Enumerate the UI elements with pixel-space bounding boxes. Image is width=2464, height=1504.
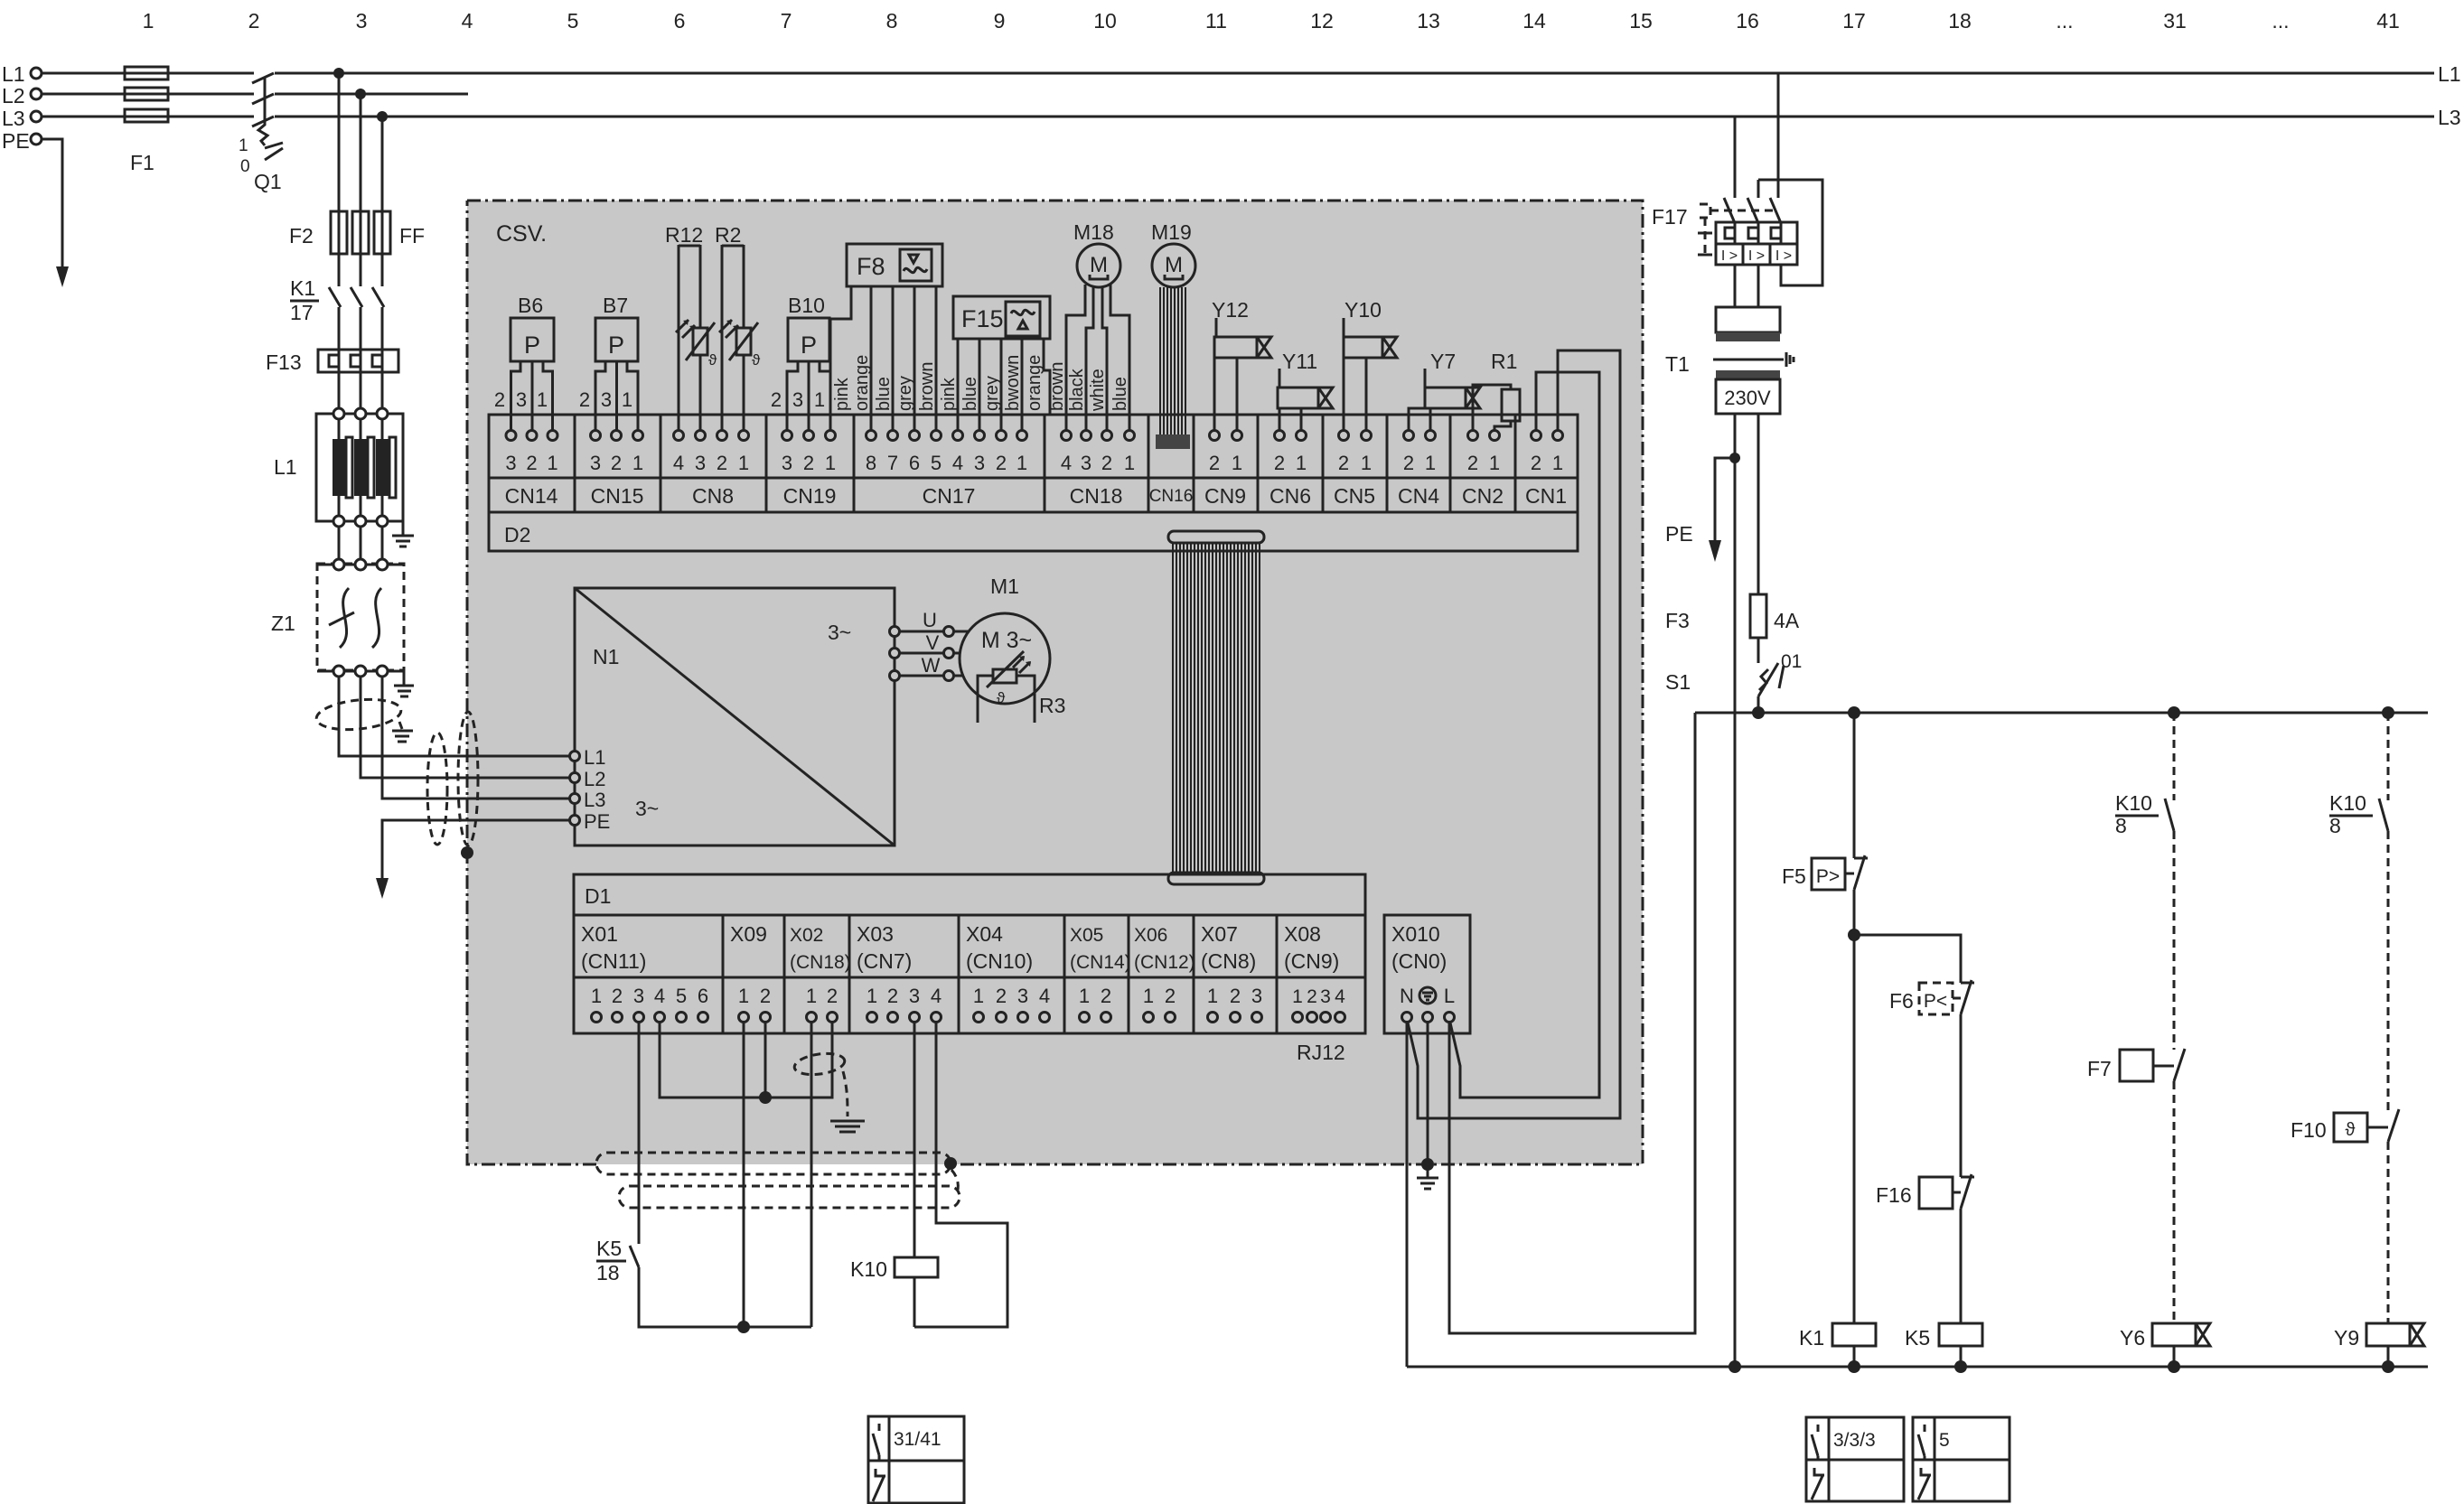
svg-text:3: 3: [1320, 986, 1331, 1007]
svg-text:2: 2: [887, 985, 898, 1007]
svg-text:(CN14): (CN14): [1070, 952, 1131, 973]
svg-text:1: 1: [1361, 452, 1372, 474]
svg-text:4A: 4A: [1774, 609, 1800, 632]
wire X010-L to control rail: [1449, 713, 1695, 1333]
svg-text:3: 3: [1251, 985, 1262, 1007]
svg-text:F2: F2: [289, 224, 314, 248]
svg-text:4: 4: [1039, 985, 1050, 1007]
wire X01-4 to X02-2 jumper: [660, 1023, 832, 1098]
svg-text:1: 1: [1124, 452, 1135, 474]
wire branch K1: [1853, 713, 1856, 858]
connector X03 pins: [867, 985, 942, 1023]
svg-text:2: 2: [1274, 452, 1285, 474]
connector CN8 pins: [673, 431, 749, 475]
svg-text:1: 1: [547, 452, 557, 474]
svg-text:M: M: [1165, 253, 1183, 277]
svg-text:D2: D2: [504, 523, 530, 546]
svg-text:2: 2: [494, 388, 505, 411]
svg-text:13: 13: [1417, 9, 1440, 33]
svg-text:K10: K10: [2115, 791, 2152, 815]
wire branch Y6 (dashed): [2173, 713, 2176, 800]
svg-text:FF: FF: [399, 224, 425, 248]
svg-text:X02: X02: [790, 925, 823, 946]
svg-text:R2: R2: [715, 223, 741, 247]
svg-text:X01: X01: [581, 922, 618, 946]
svg-text:2: 2: [1101, 452, 1112, 474]
svg-text:F1: F1: [130, 151, 155, 174]
wires F8 to CN17 pins 8-5: [871, 286, 936, 430]
svg-text:4: 4: [1335, 986, 1345, 1007]
svg-text:3: 3: [516, 388, 527, 411]
connector CN14 pins: [505, 431, 557, 475]
wire X01-3 to K5 contact: [638, 1023, 641, 1244]
svg-text:8: 8: [2115, 814, 2127, 837]
cable shield stadium 1: [596, 1153, 951, 1174]
wire L1 bus: [42, 72, 2434, 75]
svg-text:Y9: Y9: [2334, 1326, 2359, 1350]
svg-text:X06: X06: [1134, 925, 1167, 946]
wire X03-3 to K10 coil: [913, 1023, 916, 1257]
svg-text:L3: L3: [2, 107, 25, 130]
svg-text:3: 3: [590, 452, 601, 474]
shield on X02 pair: [793, 1051, 847, 1078]
svg-text:grey: grey: [895, 376, 915, 411]
ribbon cable CN16 to D1: [1173, 543, 1260, 873]
svg-text:9: 9: [994, 9, 1006, 33]
svg-text:(CN11): (CN11): [581, 949, 646, 973]
svg-text:V: V: [926, 631, 940, 654]
svg-text:1: 1: [591, 985, 602, 1007]
svg-text:CSV.: CSV.: [496, 221, 547, 247]
svg-text:F15: F15: [961, 305, 1004, 332]
svg-text:3~: 3~: [828, 621, 851, 644]
svg-text:1: 1: [973, 985, 984, 1007]
svg-text:(CN7): (CN7): [857, 949, 912, 973]
F17 magnetic row I>: [1716, 244, 1797, 265]
svg-text:ϑ: ϑ: [2346, 1120, 2356, 1140]
connector X08 pins 1234: [1292, 986, 1345, 1023]
svg-text:2: 2: [612, 985, 623, 1007]
svg-text:2: 2: [1165, 985, 1176, 1007]
junction L1/F17 feeders: [333, 68, 344, 79]
svg-text:CN8: CN8: [692, 484, 734, 508]
wire L1 to F17: [1777, 73, 1780, 198]
svg-text:black: black: [1067, 368, 1087, 411]
svg-text:17: 17: [290, 301, 314, 324]
wire choke to Z1: [339, 527, 382, 559]
svg-text:K5: K5: [1905, 1326, 1930, 1350]
connector X02 pins: [806, 985, 838, 1023]
svg-text:2: 2: [1230, 985, 1241, 1007]
svg-text:CN15: CN15: [591, 484, 644, 508]
connector X010: [1384, 915, 1470, 1033]
svg-text:2: 2: [996, 985, 1007, 1007]
svg-text:4: 4: [462, 9, 473, 33]
svg-text:1: 1: [632, 452, 643, 474]
svg-text:2: 2: [771, 388, 782, 411]
svg-text:blue: blue: [874, 377, 894, 411]
svg-text:CN9: CN9: [1204, 484, 1246, 508]
svg-text:CN4: CN4: [1398, 484, 1439, 508]
svg-text:2: 2: [1467, 452, 1478, 474]
svg-text:B7: B7: [603, 294, 628, 317]
svg-text:ϑ: ϑ: [708, 351, 717, 369]
svg-text:X03: X03: [857, 922, 894, 946]
wire F13 to choke L1: [339, 372, 382, 409]
svg-text:(CN0): (CN0): [1391, 949, 1447, 973]
svg-text:L3: L3: [2438, 106, 2461, 129]
svg-text:ϑ: ϑ: [752, 351, 761, 369]
enclosure CSV border (dash-dot): [467, 201, 1643, 1164]
svg-text:4: 4: [931, 985, 942, 1007]
svg-text:CN14: CN14: [505, 484, 558, 508]
svg-text:PE: PE: [2, 129, 30, 153]
svg-text:S1: S1: [1665, 670, 1691, 694]
svg-text:2: 2: [996, 452, 1007, 474]
svg-text:P: P: [524, 332, 540, 359]
wire F17 jumper loop: [1758, 180, 1822, 285]
svg-text:4: 4: [673, 452, 684, 474]
svg-text:U: U: [923, 609, 937, 631]
svg-text:(CN9): (CN9): [1284, 949, 1339, 973]
svg-text:3: 3: [633, 985, 644, 1007]
svg-text:F6: F6: [1889, 989, 1914, 1013]
fuse F3 4A: [1757, 414, 1760, 594]
wire X09-2 drop: [764, 1023, 767, 1098]
svg-text:L1: L1: [2, 62, 25, 86]
svg-text:1: 1: [1079, 985, 1090, 1007]
contact reference table (K10): [868, 1416, 964, 1503]
svg-text:2: 2: [1307, 986, 1317, 1007]
svg-text:(CN18): (CN18): [790, 952, 851, 973]
svg-text:5: 5: [1939, 1430, 1950, 1451]
svg-text:4: 4: [952, 452, 963, 474]
svg-text:1: 1: [814, 388, 825, 411]
svg-text:1: 1: [738, 452, 749, 474]
svg-text:1: 1: [1232, 452, 1242, 474]
svg-text:2: 2: [1209, 452, 1220, 474]
switch S1: [1757, 638, 1760, 663]
svg-text:15: 15: [1629, 9, 1653, 33]
svg-text:CN6: CN6: [1269, 484, 1311, 508]
connector CN4 pins: [1403, 431, 1436, 475]
svg-text:F5: F5: [1782, 864, 1806, 888]
wire X09-1 drop: [743, 1023, 745, 1327]
svg-text:X010: X010: [1391, 922, 1440, 946]
svg-text:X07: X07: [1201, 922, 1238, 946]
svg-text:PE: PE: [584, 810, 610, 833]
svg-text:2: 2: [1338, 452, 1349, 474]
connector X01 pins: [591, 985, 708, 1023]
svg-text:31/41: 31/41: [894, 1429, 942, 1450]
wire T1 secondary left / N drop: [1734, 414, 1737, 1367]
wires N1 U V W to M1: [900, 631, 969, 676]
svg-text:0: 0: [240, 157, 250, 176]
svg-text:brown: brown: [1047, 362, 1067, 411]
pressure switch F8: [847, 244, 942, 286]
svg-text:CN16: CN16: [1149, 487, 1194, 506]
svg-text:P<: P<: [1924, 991, 1947, 1012]
svg-text:1: 1: [1292, 986, 1303, 1007]
svg-text:M18: M18: [1073, 220, 1114, 244]
controller board D1: [574, 874, 1365, 1033]
svg-text:X08: X08: [1284, 922, 1321, 946]
wires M18 to CN18: [1066, 285, 1085, 430]
svg-text:P: P: [801, 332, 817, 359]
svg-text:31: 31: [2163, 9, 2187, 33]
frequency converter N1: [575, 588, 895, 845]
svg-text:1: 1: [1017, 452, 1027, 474]
svg-text:41: 41: [2376, 9, 2400, 33]
svg-text:F8: F8: [857, 253, 885, 280]
svg-text:2: 2: [827, 985, 838, 1007]
pressure switch F15: [953, 296, 1050, 339]
svg-text:blue: blue: [1110, 377, 1130, 411]
svg-text:CN2: CN2: [1462, 484, 1504, 508]
svg-text:M19: M19: [1151, 220, 1192, 244]
svg-text:8: 8: [866, 452, 876, 474]
svg-text:3: 3: [782, 452, 792, 474]
fuse F2 / FF (3x): [331, 211, 390, 254]
wire Z1 to N1 L2: [361, 677, 575, 778]
svg-text:N1: N1: [593, 645, 619, 668]
connector CN19 pins: [782, 431, 836, 475]
svg-text:B6: B6: [518, 294, 543, 317]
svg-text:3: 3: [909, 985, 920, 1007]
contactor contacts K1/17: [329, 287, 384, 307]
wire X010-earth to CSV bond: [1427, 1023, 1429, 1164]
svg-text:...: ...: [2056, 9, 2073, 33]
svg-text:X04: X04: [966, 922, 1003, 946]
svg-text:2: 2: [803, 452, 814, 474]
svg-text:F13: F13: [266, 350, 302, 374]
connector CN6 pins: [1274, 431, 1307, 475]
svg-text:M: M: [1090, 253, 1108, 277]
svg-text:1: 1: [1207, 985, 1218, 1007]
svg-text:P: P: [608, 332, 624, 359]
svg-text:CN1: CN1: [1525, 484, 1567, 508]
junction shield bond to CSV: [461, 846, 473, 859]
svg-text:X09: X09: [730, 922, 767, 946]
svg-text:1: 1: [1296, 452, 1307, 474]
enclosure CSV (gray area): [467, 201, 1643, 1164]
svg-text:Q1: Q1: [254, 170, 282, 193]
svg-text:2: 2: [579, 388, 590, 411]
F17 thermal row: [1716, 222, 1797, 244]
ground at choke: [392, 521, 414, 546]
svg-text:12: 12: [1310, 9, 1334, 33]
svg-text:L2: L2: [2, 84, 25, 107]
wire N1 PE with down arrow: [382, 820, 575, 878]
wire three-phase feeder drop: [339, 73, 382, 286]
thermistor R3 in M1: [978, 676, 1035, 723]
svg-text:K5: K5: [596, 1237, 622, 1260]
svg-text:blue: blue: [960, 377, 980, 411]
svg-text:Y7: Y7: [1430, 350, 1456, 373]
F17 linkage (dashed): [1710, 210, 1775, 212]
connector X09 pins: [738, 985, 771, 1023]
svg-text:Y6: Y6: [2120, 1326, 2145, 1350]
PE tap with arrow: [1715, 458, 1735, 540]
svg-text:2: 2: [760, 985, 771, 1007]
svg-text:2: 2: [1403, 452, 1414, 474]
svg-text:CN17: CN17: [923, 484, 976, 508]
svg-text:1: 1: [537, 388, 548, 411]
terminal board D2: [489, 415, 1578, 551]
choke L1: [316, 414, 403, 521]
svg-text:7: 7: [887, 452, 898, 474]
ribbon M19 to CN16: [1160, 287, 1185, 434]
svg-text:2: 2: [611, 452, 622, 474]
svg-text:11: 11: [1205, 9, 1227, 33]
svg-text:16: 16: [1736, 9, 1759, 33]
svg-text:230V: 230V: [1724, 387, 1771, 409]
svg-text:pink: pink: [832, 377, 852, 411]
svg-text:T1: T1: [1665, 352, 1690, 376]
svg-text:D1: D1: [585, 884, 611, 908]
svg-text:L1: L1: [2438, 62, 2461, 86]
svg-text:brown: brown: [917, 362, 937, 411]
svg-text:N: N: [1400, 985, 1414, 1007]
svg-text:8: 8: [2329, 814, 2341, 837]
svg-text:4: 4: [654, 985, 665, 1007]
svg-text:6: 6: [674, 9, 686, 33]
svg-text:3~: 3~: [635, 797, 659, 820]
connector X07 pins: [1207, 985, 1262, 1023]
svg-text:K10: K10: [2329, 791, 2366, 815]
svg-text:18: 18: [596, 1261, 620, 1284]
svg-text:R12: R12: [665, 223, 703, 247]
svg-text:orange: orange: [1025, 355, 1045, 411]
column ruler numbers 1-41: [143, 9, 2400, 33]
svg-text:6: 6: [698, 985, 708, 1007]
contact K5/18: [630, 1246, 639, 1267]
connector CN16 (ribbon socket): [1156, 434, 1190, 449]
wire branch K5: [1854, 935, 1961, 983]
wire K1 to F13: [339, 307, 382, 350]
svg-text:I >: I >: [1748, 248, 1765, 264]
connector CN2 pins: [1467, 431, 1500, 475]
F17 levers: [1724, 198, 1781, 223]
filter Z1: [317, 564, 404, 670]
connector X06 pins: [1143, 985, 1176, 1023]
svg-text:L3: L3: [584, 789, 605, 811]
wire L2 bus: [42, 93, 468, 96]
svg-text:17: 17: [1842, 9, 1866, 33]
svg-text:X05: X05: [1070, 925, 1103, 946]
svg-text:7: 7: [781, 9, 792, 33]
connector CN17 pins: [866, 431, 1027, 475]
svg-text:F10: F10: [2291, 1118, 2327, 1142]
wire branch Y9 (dashed): [2387, 713, 2390, 800]
svg-text:L1: L1: [584, 746, 605, 769]
svg-text:2: 2: [248, 9, 260, 33]
connector X04 pins: [973, 985, 1050, 1023]
connector CN15 pins: [590, 431, 643, 475]
wire X03-4 loop to K10: [914, 1023, 1007, 1327]
svg-text:2: 2: [717, 452, 727, 474]
svg-text:1: 1: [867, 985, 877, 1007]
svg-text:1: 1: [1552, 452, 1563, 474]
svg-text:grey: grey: [982, 376, 1002, 411]
svg-text:3: 3: [695, 452, 706, 474]
svg-text:M1: M1: [990, 575, 1019, 598]
wire CN1-2 to X010-L loop: [1449, 372, 1599, 1098]
svg-text:3: 3: [601, 388, 612, 411]
wire Z1 to N1 L3: [382, 677, 575, 799]
svg-text:B10: B10: [788, 294, 825, 317]
svg-text:CN19: CN19: [783, 484, 837, 508]
svg-text:...: ...: [2272, 9, 2289, 33]
wire Z1 to N1 L1: [339, 677, 575, 756]
svg-text:1: 1: [1425, 452, 1436, 474]
svg-text:1: 1: [738, 985, 749, 1007]
svg-text:5: 5: [931, 452, 942, 474]
svg-text:F7: F7: [2087, 1057, 2112, 1080]
svg-text:3: 3: [505, 452, 516, 474]
svg-text:white: white: [1088, 369, 1108, 412]
svg-text:(CN8): (CN8): [1201, 949, 1256, 973]
wire CN1-1 to X010-N loop: [1407, 350, 1620, 1118]
wire X010-N to N rail: [1406, 1023, 1409, 1367]
wire F8 pin1 pink to CN19-1: [830, 286, 851, 430]
thermal overload F13: [318, 350, 398, 372]
svg-text:18: 18: [1948, 9, 1972, 33]
transformer T1: [1735, 265, 1758, 307]
svg-text:F3: F3: [1665, 609, 1690, 632]
svg-text:R3: R3: [1039, 694, 1065, 717]
svg-text:Z1: Z1: [271, 612, 295, 635]
shield over feeder wires: [315, 696, 403, 733]
fuse F1 (3x): [125, 67, 168, 122]
svg-text:L1: L1: [274, 455, 297, 479]
connector CN9 pins: [1209, 431, 1242, 475]
svg-text:8: 8: [886, 9, 898, 33]
wire L3 bus: [42, 116, 2434, 118]
svg-text:R1: R1: [1491, 350, 1517, 373]
svg-text:10: 10: [1093, 9, 1117, 33]
svg-text:L: L: [1444, 985, 1455, 1007]
contact reference table (K5): [1913, 1417, 2010, 1501]
svg-text:P>: P>: [1816, 866, 1840, 887]
wire F15 orange: [1044, 339, 1050, 415]
svg-text:1: 1: [1143, 985, 1154, 1007]
switch Q1: [252, 73, 283, 160]
ground below X010: [1417, 1164, 1438, 1189]
svg-text:1: 1: [825, 452, 836, 474]
svg-text:1: 1: [143, 9, 155, 33]
svg-text:2: 2: [526, 452, 537, 474]
svg-text:5: 5: [567, 9, 579, 33]
svg-text:orange: orange: [852, 355, 872, 411]
svg-text:3: 3: [356, 9, 368, 33]
svg-text:Y10: Y10: [1344, 298, 1382, 322]
wire N return rail: [1407, 1366, 2428, 1369]
svg-text:3: 3: [792, 388, 803, 411]
connector X05 pins: [1079, 985, 1111, 1023]
svg-text:K1: K1: [1799, 1326, 1824, 1350]
svg-text:1: 1: [806, 985, 817, 1007]
svg-text:ϑ: ϑ: [997, 689, 1006, 706]
wires F15 to CN17 pins 4-1: [958, 339, 1022, 430]
svg-text:I >: I >: [1775, 248, 1792, 264]
svg-text:3: 3: [974, 452, 985, 474]
svg-text:(CN12): (CN12): [1134, 952, 1195, 973]
svg-text:I >: I >: [1721, 248, 1738, 264]
connector CN1 pins: [1531, 431, 1563, 475]
svg-text:2: 2: [1101, 985, 1111, 1007]
wire L control rail: [1695, 712, 2428, 715]
